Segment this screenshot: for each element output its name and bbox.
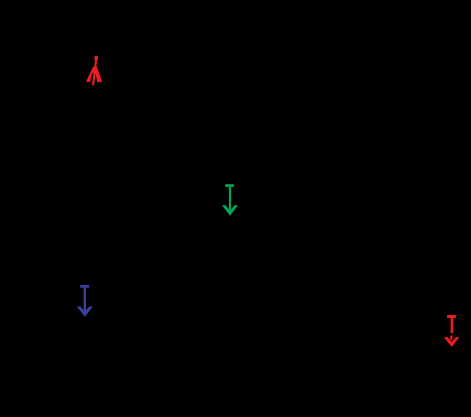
current arrow I4 (red, down): [444, 315, 460, 347]
voltage source V1: [46, 226, 74, 254]
current arrow I1 (red, up, slanted): [86, 56, 101, 85]
current arrow I2 (green, down): [222, 184, 238, 216]
wire middle vertical: [229, 140, 231, 370]
ground: [220, 370, 240, 390]
current arrow I3 (blue, down): [77, 285, 93, 317]
wire bottom horizontal: [60, 369, 420, 371]
wire right vertical: [419, 140, 421, 370]
resistor R2: [412, 230, 428, 270]
wire left vertical: [59, 140, 61, 370]
wire top horizontal: [60, 139, 420, 141]
resistor R1: [222, 230, 238, 270]
